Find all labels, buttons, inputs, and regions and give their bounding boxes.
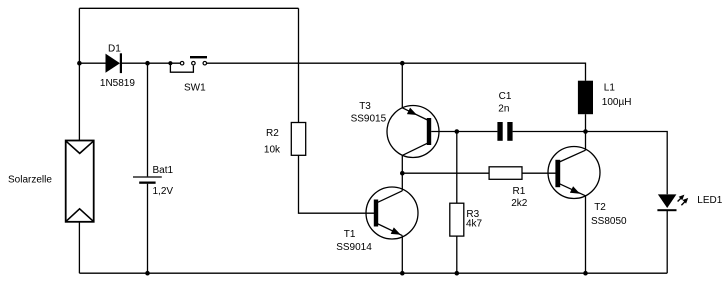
svg-text:T3: T3	[359, 101, 371, 112]
diode D1 1N5819	[100, 43, 135, 89]
svg-text:T1: T1	[344, 229, 356, 240]
transistor T1 SS9014 (NPN)	[336, 187, 418, 253]
svg-text:100µH: 100µH	[602, 97, 632, 108]
node D1 cathode / Bat1	[145, 61, 150, 66]
inductor L1 100uH	[578, 81, 632, 115]
wire C1 right plate to node L1	[513, 131, 586, 133]
node T3 emitter tap	[400, 61, 405, 66]
svg-text:Solarzelle: Solarzelle	[8, 175, 52, 186]
wire T2 collector stub up	[585, 132, 587, 151]
wire R1 to T2 base	[522, 172, 556, 174]
capacitor C1 2n	[497, 91, 512, 141]
wire left rail upper	[78, 8, 80, 140]
wire SW1 to L1 top corner	[207, 63, 586, 80]
wire bottom rail	[79, 272, 667, 274]
node junction dots	[77, 61, 588, 276]
node T3 base / C1 / R3	[455, 129, 460, 134]
wire T1 emitter stub down	[401, 236, 403, 274]
wire R3 bottom to bottom rail	[456, 236, 458, 273]
wire L1 bottom to node	[585, 114, 587, 131]
node T3/T1 collectors / R1	[400, 171, 405, 176]
solar cell Solarzelle	[8, 141, 94, 222]
svg-text:SW1: SW1	[184, 82, 206, 93]
svg-text:R2: R2	[266, 128, 279, 139]
svg-text:2n: 2n	[498, 104, 509, 115]
svg-text:Bat1: Bat1	[153, 165, 174, 176]
wire R2 top from top rail	[298, 8, 300, 122]
svg-text:LED1: LED1	[697, 195, 722, 206]
resistor R2 10k	[264, 123, 306, 156]
wire T3 base to node C1	[431, 131, 457, 133]
svg-text:10k: 10k	[264, 144, 281, 155]
node Bat1 bottom rail	[145, 271, 150, 276]
node R3 bottom rail	[455, 271, 460, 276]
svg-text:2k2: 2k2	[511, 198, 528, 209]
svg-text:R1: R1	[513, 186, 526, 197]
wire LED cathode to bottom rail	[666, 210, 668, 273]
wire T3 emitter stub	[401, 63, 403, 108]
battery Bat1 1,2V	[133, 165, 174, 197]
switch SW1	[168, 56, 207, 93]
wire top rail	[79, 7, 298, 9]
svg-text:SS8050: SS8050	[591, 216, 627, 227]
wire D1 cathode to SW1	[122, 62, 180, 64]
svg-text:1N5819: 1N5819	[100, 78, 135, 89]
LED LED1	[657, 194, 722, 211]
wire Bat1 top	[147, 63, 149, 176]
svg-text:4k7: 4k7	[466, 219, 483, 230]
svg-text:SS9014: SS9014	[336, 242, 372, 253]
node T1 emitter bottom rail	[400, 271, 405, 276]
resistor R1 2k2	[489, 167, 528, 209]
svg-text:1,2V: 1,2V	[153, 186, 174, 197]
wire right rail LED branch	[586, 132, 668, 195]
wire Bat1 bottom	[147, 184, 149, 274]
svg-text:SS9015: SS9015	[351, 113, 387, 124]
node T2 emitter bottom rail	[583, 271, 588, 276]
node L1 / T2 collector / LED branch	[583, 129, 588, 134]
svg-text:D1: D1	[108, 43, 121, 54]
wire D1 anode	[79, 62, 105, 64]
wire T2 emitter stub down	[585, 196, 587, 273]
wire solar cell bottom stub	[78, 222, 80, 273]
wire R3 top from node	[456, 132, 458, 204]
wire R2 bottom to T1 base	[299, 155, 375, 213]
svg-text:T2: T2	[594, 202, 606, 213]
svg-text:C1: C1	[499, 91, 512, 102]
wire T1 collector stub up	[401, 173, 403, 191]
svg-text:L1: L1	[604, 83, 616, 94]
node D1 anode / solar cell	[77, 61, 82, 66]
resistor R3 4k7	[450, 203, 483, 236]
transistor T3 SS9015 (PNP)	[351, 101, 439, 157]
wire T1 collector to R1	[402, 172, 489, 174]
wire T3 collector stub	[401, 155, 403, 173]
wire node to C1 left plate	[457, 131, 498, 133]
transistor T2 SS8050 (NPN)	[548, 147, 627, 227]
